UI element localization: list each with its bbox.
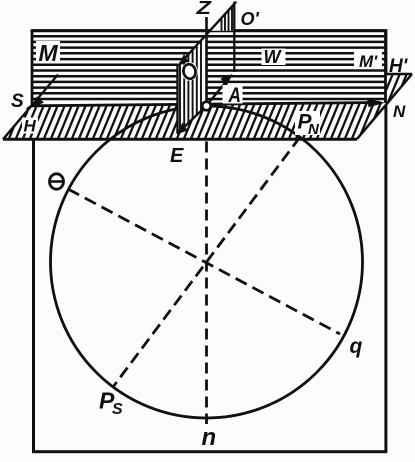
dashed axis Pn-Ps bbox=[113, 137, 300, 387]
label H bbox=[22, 117, 38, 136]
meridian stripes bbox=[33, 36, 385, 99]
dashed axis Z-n (vertical) bbox=[205, 142, 208, 425]
plate hatching bbox=[180, 30, 201, 136]
meridian rect left edge bbox=[31, 30, 34, 107]
band back edge (visible right of meridian rect) bbox=[384, 73, 412, 76]
svg-text:H: H bbox=[24, 117, 37, 136]
point A (white dot) bbox=[202, 102, 211, 111]
svg-text:N: N bbox=[393, 102, 406, 121]
E arrow (bottom edge of plate, A toward E) bbox=[179, 109, 204, 133]
band face bbox=[3, 74, 412, 139]
label W bbox=[262, 47, 286, 67]
svg-text:A: A bbox=[228, 84, 241, 107]
arrow toward N bbox=[367, 98, 385, 107]
celestial sphere circle bbox=[51, 106, 363, 418]
svg-text:n: n bbox=[202, 424, 217, 451]
label A bbox=[223, 84, 243, 107]
svg-text:S: S bbox=[112, 401, 123, 418]
plate left edge bbox=[176, 64, 178, 134]
svg-text:E: E bbox=[170, 145, 184, 167]
band right edge bbox=[357, 74, 412, 139]
label e (theta, on equator line) bbox=[50, 174, 64, 189]
plate top corner face (O' corner) bbox=[209, 2, 236, 31]
svg-text:Z: Z bbox=[195, 0, 212, 18]
arrow toward S (horizon plane left edge over stripes) bbox=[27, 75, 59, 110]
square frame bbox=[34, 31, 386, 452]
horizon plane H-H' (hatched parallelogram) bbox=[0, 72, 415, 141]
plate back edge O'-W bbox=[233, 2, 235, 72]
plate face bbox=[178, 33, 207, 133]
plate top corner hatching bbox=[222, 0, 233, 32]
band hatching bbox=[0, 72, 415, 141]
W arrow (A toward W) bbox=[209, 74, 233, 103]
label M bbox=[36, 40, 60, 66]
meridian rect face bbox=[32, 31, 386, 106]
svg-text:M': M' bbox=[359, 52, 378, 71]
svg-text:q: q bbox=[350, 335, 363, 358]
S-N noon line (bottom edge of meridian rect) bbox=[32, 103, 381, 106]
meridian plane M-M' (striped rectangle) bbox=[31, 30, 387, 107]
vertical plane through A (plate with vertical hatching) bbox=[177, 0, 237, 136]
meridian rect right edge bbox=[384, 30, 387, 104]
svg-text:M: M bbox=[39, 40, 59, 66]
band front edge bbox=[3, 138, 357, 141]
svg-text:W: W bbox=[264, 47, 283, 67]
dashed line e-q bbox=[68, 189, 340, 334]
label Pn bbox=[295, 111, 320, 139]
svg-text:O': O' bbox=[241, 9, 260, 29]
svg-text:N: N bbox=[308, 121, 320, 138]
plate top edge with arrow bbox=[180, 2, 236, 64]
Z line (zenith axis above A) bbox=[205, 17, 208, 105]
label Ps bbox=[99, 388, 123, 419]
label O (on plate) bbox=[181, 62, 197, 81]
label M' bbox=[354, 51, 382, 71]
svg-text:S: S bbox=[11, 91, 24, 112]
band left edge bbox=[3, 75, 58, 140]
svg-text:H': H' bbox=[389, 56, 409, 77]
meridian rect top edge bbox=[31, 29, 387, 32]
